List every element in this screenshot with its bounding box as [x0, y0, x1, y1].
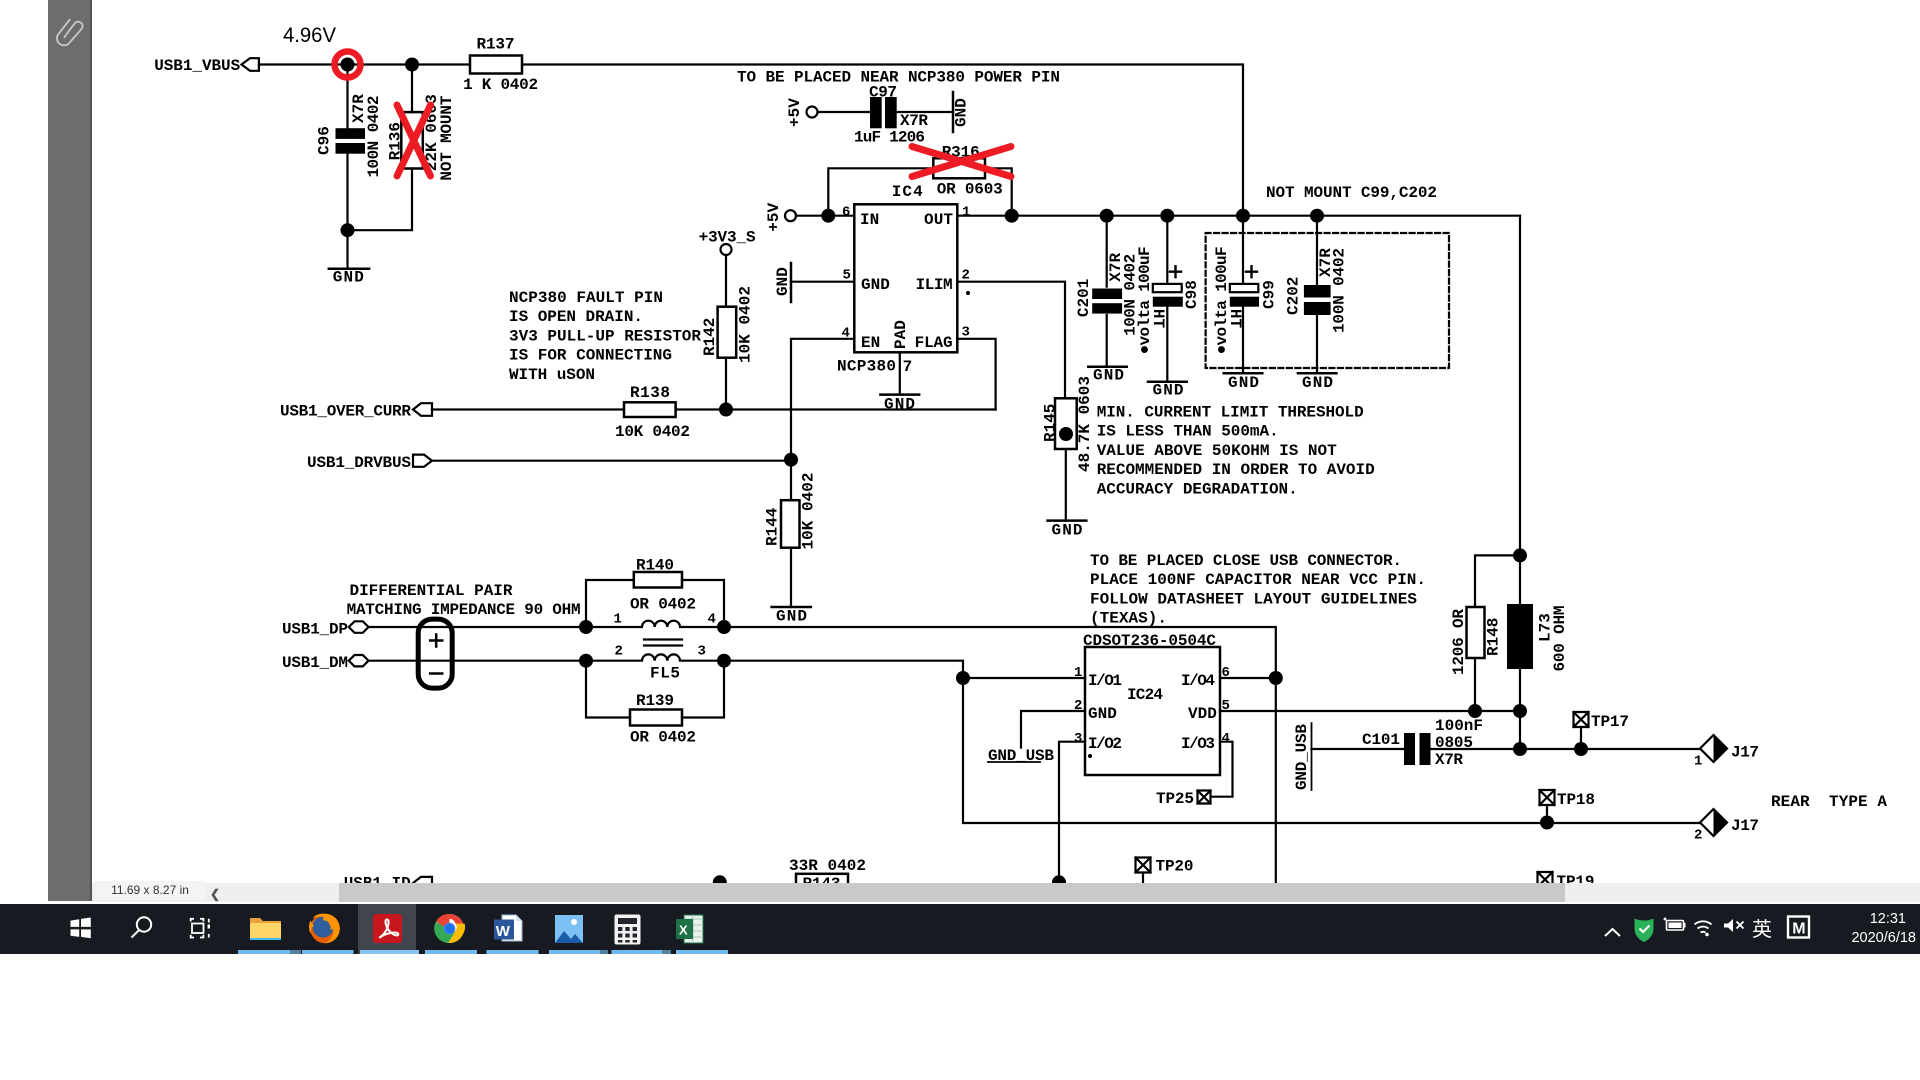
junction DM FL5 right [717, 654, 731, 668]
file explorer icon [250, 918, 281, 940]
svg-text:100N 0402: 100N 0402 [365, 96, 383, 178]
test point TP20 [1136, 858, 1151, 873]
svg-text:USB1_DP: USB1_DP [282, 621, 348, 639]
op-amp IC4 NCP380 body [854, 204, 957, 352]
svg-text:DIFFERENTIAL PAIR: DIFFERENTIAL PAIR [350, 582, 513, 600]
net USB1_DRVBUS arrow [413, 455, 432, 467]
svg-text:6: 6 [842, 205, 850, 221]
junction EN DRVBUS [784, 453, 798, 467]
wire R142 [725, 255, 727, 410]
svg-text:VDD: VDD [1188, 705, 1217, 723]
svg-text:●volta 100uF: ●volta 100uF [1213, 246, 1231, 354]
resistor R139 [630, 710, 682, 726]
inductor L73 body [1507, 604, 1533, 669]
svg-text:GND: GND [776, 608, 807, 626]
polarity marker box [418, 619, 452, 688]
wire R316 left leg [828, 168, 933, 215]
capacitor C97 wires [818, 111, 954, 113]
ground C99 [1224, 372, 1263, 375]
firefox icon [309, 914, 340, 944]
inductor FL5 coil DM [586, 654, 724, 660]
svg-text:PAD: PAD [892, 320, 910, 349]
page size box [95, 881, 205, 900]
junction IO4 [1269, 671, 1283, 685]
svg-text:NOT MOUNT C99,C202: NOT MOUNT C99,C202 [1266, 184, 1437, 202]
svg-text:HT: HT [1149, 309, 1167, 329]
wire IO1 pin1 [963, 677, 1085, 679]
svg-text:4: 4 [708, 612, 716, 628]
junction ID bus IO2 [1052, 875, 1066, 889]
svg-text:R144: R144 [764, 507, 782, 546]
ground R145 [1048, 519, 1087, 522]
svg-text:GND: GND [1228, 374, 1259, 392]
svg-text:USB1_DM: USB1_DM [282, 654, 348, 672]
tray chevron up [1605, 929, 1620, 936]
chrome icon [434, 914, 465, 943]
svg-text:R138: R138 [630, 384, 670, 402]
wire OUT pin1 bus [957, 215, 1520, 217]
junction VDD R148 [1468, 704, 1482, 718]
svg-text:GND_USB: GND_USB [988, 747, 1054, 765]
svg-text:I/O2: I/O2 [1088, 735, 1122, 753]
ground C202 [1298, 372, 1337, 375]
svg-text:TP19: TP19 [1557, 873, 1595, 883]
net USB1_DP arrow [349, 621, 369, 633]
terminal +5V C97 [807, 107, 818, 118]
svg-text:7: 7 [903, 358, 913, 376]
ground pin5 rotated bar [790, 263, 793, 302]
resistor R144 [781, 500, 800, 548]
tray wifi icon [1695, 921, 1712, 936]
svg-text:GND: GND [1052, 522, 1083, 540]
capacitor C99 negative plate [1230, 297, 1259, 307]
svg-text:100N 0402: 100N 0402 [1331, 248, 1349, 333]
resistor R145 [1055, 398, 1077, 449]
ground C98 [1148, 380, 1187, 383]
svg-text:GND: GND [884, 396, 915, 414]
svg-text:GND: GND [1153, 382, 1184, 400]
junction R142 OVER_CURR [719, 403, 733, 417]
junction DP FL5 right [717, 620, 731, 634]
svg-text:3: 3 [1074, 731, 1082, 747]
svg-text:X7R: X7R [1435, 751, 1463, 769]
svg-text:USB1_DRVBUS: USB1_DRVBUS [307, 454, 411, 472]
wire TP18 stem [1546, 805, 1548, 823]
svg-text:M: M [1792, 921, 1805, 938]
junction DM FL5 left [579, 654, 593, 668]
svg-text:100nF: 100nF [1435, 717, 1483, 735]
svg-text:1: 1 [614, 612, 622, 628]
wire PAD pin7 [899, 352, 901, 394]
svg-text:C98: C98 [1183, 280, 1201, 309]
wire FLAG pin3 [957, 339, 995, 410]
svg-text:1: 1 [1074, 665, 1082, 681]
svg-text:ILIM: ILIM [916, 276, 953, 294]
wire L73 vertical [1519, 216, 1521, 749]
junction OUT R316 [1005, 209, 1019, 223]
resistor R140 [634, 572, 682, 588]
connector J17 pin1 fill [1714, 735, 1728, 762]
svg-text:10K 0402: 10K 0402 [737, 286, 755, 363]
svg-text:1: 1 [1694, 754, 1702, 770]
capacitor C98 wires [1166, 216, 1168, 382]
not-mount dashed box C99 C202 [1206, 233, 1449, 368]
tray ime mode box [1788, 917, 1809, 938]
svg-text:5: 5 [1222, 698, 1230, 714]
wire IN pin6 [796, 215, 854, 217]
svg-text:R145: R145 [1042, 404, 1060, 442]
svg-text:●volta 100uF: ●volta 100uF [1136, 246, 1154, 354]
test point TP19 [1538, 872, 1553, 887]
svg-text:X: X [679, 923, 688, 938]
svg-text:I/O4: I/O4 [1181, 672, 1215, 690]
svg-text:TO BE PLACED CLOSE USB CONNECT: TO BE PLACED CLOSE USB CONNECTOR. [1090, 552, 1402, 570]
wire DRVBUS [432, 460, 791, 462]
annotation red circle on VBUS junction [335, 52, 361, 78]
connector J17 pin2 diamond [1700, 809, 1727, 836]
svg-text:R137: R137 [477, 36, 515, 54]
wire VBUS horizontal [259, 65, 1243, 216]
svg-text:GND_USB: GND_USB [1293, 724, 1311, 790]
junction R145 body dot [1059, 427, 1073, 441]
bottom scrollbar band [92, 883, 1920, 902]
svg-text:HT: HT [1226, 309, 1244, 329]
svg-text:(TEXAS).: (TEXAS). [1090, 610, 1167, 628]
svg-text:X7R: X7R [900, 112, 928, 130]
svg-text:0805: 0805 [1435, 734, 1473, 752]
capacitor C98 positive plate [1153, 284, 1182, 292]
svg-text:C202: C202 [1285, 277, 1303, 315]
svg-text:GND: GND [774, 267, 792, 296]
test point TP17 [1574, 712, 1589, 727]
plus sign C98 [1170, 266, 1181, 277]
wire USB1_DM [369, 660, 587, 662]
resistor R142 [718, 307, 737, 358]
svg-text:J17: J17 [1731, 744, 1759, 762]
net USB1_VBUS arrow [242, 58, 259, 71]
capacitor C202 wires [1316, 216, 1318, 374]
wire TP20 stem [1142, 873, 1144, 884]
inductor FL5 core [644, 640, 682, 646]
svg-text:12:31: 12:31 [1870, 911, 1906, 927]
net USB1_DM arrow [349, 655, 369, 666]
inductor FL5 coil DP [586, 621, 724, 627]
svg-text:ACCURACY DEGRADATION.: ACCURACY DEGRADATION. [1097, 480, 1298, 498]
tray defender shield [1635, 919, 1654, 943]
svg-text:TP18: TP18 [1557, 791, 1595, 809]
svg-text:GND: GND [1302, 374, 1333, 392]
svg-text:J17: J17 [1731, 817, 1759, 835]
svg-text:R142: R142 [701, 318, 719, 356]
svg-text:IC4: IC4 [892, 183, 923, 201]
junction OUT C99 VBUS [1236, 209, 1250, 223]
svg-text:1 K 0402: 1 K 0402 [463, 76, 538, 94]
svg-text:IS OPEN DRAIN.: IS OPEN DRAIN. [509, 308, 643, 326]
wire IO4 pin6 [1220, 677, 1276, 679]
wire R139 bypass [586, 661, 724, 718]
junction OUT C202 [1310, 209, 1324, 223]
svg-text:FOLLOW DATASHEET LAYOUT GUIDEL: FOLLOW DATASHEET LAYOUT GUIDELINES [1090, 590, 1417, 608]
svg-text:3: 3 [698, 644, 706, 660]
connector J17 pin1 diamond [1700, 735, 1727, 762]
start button windows logo [71, 918, 91, 939]
svg-text:USB1_OVER_CURR: USB1_OVER_CURR [280, 403, 411, 421]
junction VBUS R136 [405, 58, 419, 72]
resistor R138 [624, 402, 676, 417]
junction TP18 [1540, 816, 1554, 830]
svg-text:TP17: TP17 [1591, 713, 1629, 731]
svg-text:C201: C201 [1075, 279, 1093, 317]
annotation red X over R136 [397, 105, 431, 176]
test point TP25 [1198, 791, 1211, 804]
svg-text:5: 5 [843, 268, 851, 284]
svg-text:R136: R136 [387, 122, 405, 160]
svg-text:3: 3 [962, 325, 970, 341]
junction C101 L73 [1513, 742, 1527, 756]
capacitor C99 wires [1242, 216, 1244, 374]
ground C97 rotated bar [952, 92, 955, 132]
wire USB1_DP [369, 626, 587, 628]
wire VDD GND_USB label stub [1311, 723, 1313, 790]
svg-text:NCP380: NCP380 [837, 358, 896, 376]
svg-text:10K 0402: 10K 0402 [615, 423, 690, 441]
windows taskbar [0, 904, 1920, 954]
svg-text:IN: IN [860, 211, 879, 229]
plus sign C99 [1246, 266, 1257, 277]
svg-text:1206 OR: 1206 OR [1450, 609, 1468, 675]
wire TP17 stem [1580, 727, 1582, 749]
capacitor C201 wires [1106, 216, 1108, 367]
annotation red X over R316 [912, 147, 1011, 177]
wire GND pin5 [791, 281, 854, 283]
scrollbar left arrow [210, 885, 220, 904]
wire OUT down to R148 L73 [1475, 555, 1520, 711]
svg-text:4: 4 [842, 326, 850, 342]
svg-text:4.96V: 4.96V [283, 24, 336, 47]
svg-text:TO BE PLACED NEAR NCP380 POWER: TO BE PLACED NEAR NCP380 POWER PIN [737, 69, 1060, 87]
svg-text:R139: R139 [636, 692, 674, 710]
svg-text:GND: GND [861, 276, 890, 294]
wire ILIM pin2 [957, 282, 1065, 399]
wire R144 to ground [790, 548, 792, 607]
junction TP17 [1574, 742, 1588, 756]
svg-text:+5V: +5V [765, 202, 783, 231]
terminal +3V3_S [721, 244, 732, 255]
resistor R143 [796, 874, 848, 890]
svg-text:MIN. CURRENT LIMIT THRESHOLD: MIN. CURRENT LIMIT THRESHOLD [1097, 404, 1364, 422]
svg-text:OUT: OUT [924, 211, 953, 229]
capacitor C96 wires [346, 65, 348, 269]
svg-text:IC24: IC24 [1127, 686, 1163, 704]
junction IN R316 [821, 209, 835, 223]
svg-text:C101: C101 [1362, 731, 1400, 749]
svg-text:2: 2 [615, 644, 623, 660]
svg-text:IS LESS THAN 500mA.: IS LESS THAN 500mA. [1097, 423, 1279, 441]
junction OUT R148 [1513, 548, 1527, 562]
svg-text:33R 0402: 33R 0402 [789, 857, 866, 875]
capacitor C96 plates [336, 128, 366, 139]
ground PAD [880, 393, 919, 396]
svg-text:C97: C97 [869, 84, 897, 102]
junction VBUS C96 [341, 58, 355, 72]
svg-text:IS FOR CONNECTING: IS FOR CONNECTING [509, 347, 672, 365]
capacitor C201 plates [1092, 289, 1122, 300]
svg-text:10K 0402: 10K 0402 [800, 473, 818, 550]
calculator icon [615, 915, 641, 945]
svg-text:TP20: TP20 [1156, 858, 1194, 876]
terminal +5V IN [785, 210, 796, 221]
svg-text:OR 0402: OR 0402 [630, 729, 696, 747]
paperclip attachment icon [53, 11, 89, 52]
stray dot IO2 [1088, 754, 1092, 758]
svg-text:英: 英 [1752, 918, 1772, 941]
svg-text:R148: R148 [1485, 618, 1503, 656]
acrobat reader icon [373, 914, 402, 943]
svg-text:I/O1: I/O1 [1088, 672, 1122, 690]
svg-text:1: 1 [962, 205, 970, 221]
svg-text:2: 2 [1694, 828, 1702, 844]
white area below taskbar [0, 954, 1920, 1080]
resistor R316 [933, 158, 985, 178]
taskbar underline indicators [238, 950, 728, 954]
ground C96 [329, 267, 369, 270]
svg-text:2: 2 [962, 268, 970, 284]
capacitor C98 negative plate [1153, 297, 1183, 307]
svg-text:GND: GND [1088, 705, 1117, 723]
net GND_USB underline [988, 761, 1040, 763]
svg-text:+3V3_S: +3V3_S [699, 229, 756, 247]
acrobat left attachments sidebar [48, 0, 92, 901]
svg-text:CDSOT236-0504C: CDSOT236-0504C [1083, 632, 1216, 650]
svg-text:+5V: +5V [786, 98, 804, 127]
wire IO2 pin3 [1059, 742, 1085, 883]
svg-text:FLAG: FLAG [915, 334, 953, 352]
tray speaker muted [1724, 919, 1744, 932]
junction IO1 [956, 671, 970, 685]
svg-text:GND: GND [333, 268, 364, 286]
wire R316 right leg [985, 168, 1012, 215]
svg-text:EN: EN [861, 334, 880, 352]
svg-text:OR 0402: OR 0402 [630, 596, 696, 614]
wire IO3 pin4 to TP25 [1211, 742, 1233, 797]
svg-text:MATCHING IMPEDANCE 90 OHM: MATCHING IMPEDANCE 90 OHM [347, 601, 581, 619]
svg-text:REAR TYPE A: REAR TYPE A [1771, 793, 1887, 811]
svg-text:RECOMMENDED IN ORDER TO AVOID: RECOMMENDED IN ORDER TO AVOID [1097, 461, 1375, 479]
junction VDD L73 [1513, 704, 1527, 718]
wire C101 to J17 [1431, 748, 1701, 750]
junction OUT C98 [1160, 209, 1174, 223]
svg-text:48.7K 0603: 48.7K 0603 [1076, 376, 1094, 472]
svg-text:WITH uSON: WITH uSON [509, 366, 595, 384]
svg-text:I/O3: I/O3 [1181, 735, 1215, 753]
wire OVER_CURR [432, 408, 996, 410]
svg-text:NOT MOUNT: NOT MOUNT [438, 95, 456, 180]
excel icon [676, 915, 703, 943]
wire bottom ID bus [432, 883, 1059, 885]
resistor R136 [401, 112, 423, 168]
photos icon [555, 915, 583, 943]
junction OUT C201 [1100, 209, 1114, 223]
net USB1_OVER_CURR arrow [413, 403, 432, 416]
svg-text:VALUE ABOVE 50KOHM IS NOT: VALUE ABOVE 50KOHM IS NOT [1097, 442, 1337, 460]
svg-text:GND: GND [1093, 367, 1124, 385]
svg-text:TP25: TP25 [1156, 790, 1194, 808]
capacitor C101 plates [1404, 733, 1415, 765]
wire GND pin2 to GND_USB [1021, 711, 1085, 748]
test point TP18 [1540, 790, 1555, 805]
resistor R148 [1467, 607, 1485, 658]
wire R136 [355, 65, 413, 231]
wire VDD pin5 [1220, 710, 1520, 712]
wire DP to loop [724, 627, 1276, 883]
svg-text:USB1_VBUS: USB1_VBUS [154, 57, 240, 75]
ground R144 [772, 606, 811, 609]
svg-text:W: W [496, 923, 511, 940]
resistor R137 [470, 56, 522, 74]
svg-text:R140: R140 [636, 557, 674, 575]
tray battery icon [1664, 918, 1685, 931]
task view icon [191, 919, 210, 938]
ground C201 [1088, 365, 1126, 368]
wire R140 bypass [586, 580, 724, 627]
polarity minus [430, 672, 442, 675]
IC U-IC24 CDSOT236 body [1085, 647, 1220, 775]
wire DM to IC24 [724, 661, 1700, 823]
svg-text:2: 2 [1074, 698, 1082, 714]
capacitor C97 plates [870, 97, 882, 128]
capacitor C99 positive plate [1230, 284, 1259, 292]
stray dot ILIM [966, 291, 970, 295]
svg-text:FL5: FL5 [650, 665, 680, 683]
wire GND_USB to C101 [1312, 748, 1405, 750]
search icon [132, 917, 152, 937]
polarity plus [430, 635, 442, 647]
connector J17 pin2 fill [1714, 809, 1728, 836]
capacitor C202 plates [1304, 285, 1331, 298]
junction C96 R136 gnd [341, 223, 355, 237]
svg-text:2020/6/18: 2020/6/18 [1851, 930, 1916, 946]
svg-text:600 OHM: 600 OHM [1551, 606, 1569, 672]
net USB1_ID arrow [413, 877, 432, 889]
svg-text:6: 6 [1222, 665, 1230, 681]
wire EN pin4 [791, 339, 854, 500]
svg-text:C96: C96 [316, 126, 334, 155]
svg-text:C99: C99 [1260, 280, 1278, 309]
svg-text:3V3 PULL-UP RESISTOR: 3V3 PULL-UP RESISTOR [509, 327, 701, 345]
svg-text:OR 0603: OR 0603 [937, 180, 1003, 198]
junction ID bus left [713, 875, 727, 889]
word icon [494, 915, 522, 941]
svg-text:GND: GND [953, 98, 971, 127]
scrollbar thumb [339, 883, 1565, 902]
junction DP FL5 left [579, 620, 593, 634]
svg-text:4: 4 [1222, 731, 1230, 747]
svg-text:NCP380 FAULT PIN: NCP380 FAULT PIN [509, 289, 663, 307]
svg-text:PLACE 100NF CAPACITOR NEAR VCC: PLACE 100NF CAPACITOR NEAR VCC PIN. [1090, 571, 1426, 589]
wire R145 to ground [1065, 449, 1067, 521]
